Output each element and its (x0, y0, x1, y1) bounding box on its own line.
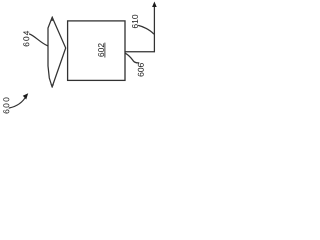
output line 610 (125, 6, 154, 52)
prism 604 top vertex (51, 16, 54, 21)
label 604 (23, 31, 29, 47)
leader to 606 (125, 53, 139, 63)
reference arrow 600 (9, 96, 26, 108)
prism 604 left edge (48, 17, 52, 87)
label 606 (138, 63, 144, 76)
prism 604 right edges (52, 18, 66, 88)
leader to 604 (30, 34, 48, 46)
prism 604 bottom vertex (51, 84, 54, 88)
leader to 610 (139, 26, 154, 34)
underline of label 602 (104, 43, 106, 57)
arrowhead 610 (152, 2, 157, 8)
box 602 (68, 21, 125, 81)
arrowhead 600 (23, 93, 28, 99)
label 602 (98, 43, 104, 56)
label 610 (132, 15, 138, 28)
label 600 (3, 97, 9, 113)
